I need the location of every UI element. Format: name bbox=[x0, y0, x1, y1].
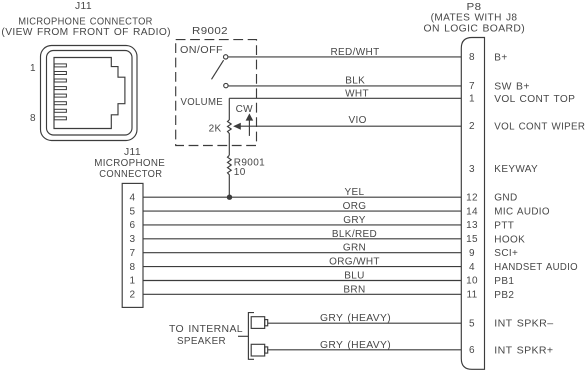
svg-text:KEYWAY: KEYWAY bbox=[494, 164, 538, 175]
svg-text:ORG/WHT: ORG/WHT bbox=[329, 257, 380, 268]
svg-text:WHT: WHT bbox=[345, 88, 369, 99]
wire YEL bbox=[143, 187, 461, 198]
wire RED/WHT bbox=[228, 47, 461, 58]
svg-text:GND: GND bbox=[494, 193, 517, 204]
svg-text:J11: J11 bbox=[75, 1, 92, 12]
svg-text:YEL: YEL bbox=[345, 187, 365, 198]
svg-text:MIC AUDIO: MIC AUDIO bbox=[494, 207, 550, 218]
svg-text:7: 7 bbox=[130, 248, 136, 259]
svg-text:INT SPKR–: INT SPKR– bbox=[494, 319, 553, 330]
wire BLK/RED bbox=[143, 229, 461, 240]
svg-text:RED/WHT: RED/WHT bbox=[330, 47, 379, 58]
wire GRY bbox=[143, 215, 461, 226]
svg-text:PB2: PB2 bbox=[494, 290, 514, 301]
svg-text:1: 1 bbox=[130, 276, 136, 287]
svg-text:INT SPKR+: INT SPKR+ bbox=[494, 345, 553, 356]
svg-text:2: 2 bbox=[469, 121, 475, 132]
node P8 header label bbox=[424, 2, 526, 35]
resistor R9001 10 bbox=[228, 155, 266, 197]
svg-text:GRY (HEAVY): GRY (HEAVY) bbox=[320, 340, 391, 351]
svg-text:GRY: GRY bbox=[343, 215, 366, 226]
svg-text:BLK: BLK bbox=[345, 76, 365, 87]
svg-text:HANDSET AUDIO: HANDSET AUDIO bbox=[494, 262, 578, 273]
control assembly R9002 dashed enclosure bbox=[176, 26, 257, 146]
wire ORG/WHT bbox=[143, 257, 461, 268]
speaker bracket bbox=[169, 313, 254, 360]
node J11 front-view header label bbox=[1, 1, 170, 38]
svg-text:R9002: R9002 bbox=[192, 26, 228, 37]
potentiometer R9002 2K VOLUME bbox=[181, 97, 232, 155]
svg-text:SPEAKER: SPEAKER bbox=[177, 336, 226, 347]
svg-text:4: 4 bbox=[130, 192, 136, 203]
node J11 schematic header label bbox=[94, 147, 165, 180]
CW rotation arrow bbox=[236, 104, 254, 136]
svg-text:1: 1 bbox=[30, 63, 36, 74]
wire BRN bbox=[143, 284, 461, 295]
svg-text:MICROPHONE: MICROPHONE bbox=[94, 158, 165, 169]
svg-text:6: 6 bbox=[130, 220, 136, 231]
svg-text:CONNECTOR: CONNECTOR bbox=[99, 169, 162, 180]
svg-text:2: 2 bbox=[130, 290, 136, 301]
wire WHT bbox=[229, 88, 461, 99]
svg-text:8: 8 bbox=[130, 262, 136, 273]
svg-text:1: 1 bbox=[469, 94, 475, 105]
svg-text:BRN: BRN bbox=[343, 284, 365, 295]
connector J11 front-view jack body bbox=[41, 46, 138, 141]
svg-text:VOLUME: VOLUME bbox=[181, 97, 224, 108]
svg-text:P8: P8 bbox=[467, 2, 482, 13]
svg-text:ORG: ORG bbox=[343, 201, 367, 212]
svg-text:PTT: PTT bbox=[494, 221, 514, 232]
svg-text:(VIEW FROM FRONT OF RADIO): (VIEW FROM FRONT OF RADIO) bbox=[1, 27, 170, 38]
svg-text:13: 13 bbox=[466, 220, 478, 231]
svg-text:TO INTERNAL: TO INTERNAL bbox=[169, 324, 243, 335]
junction R9001 to YEL/GND bbox=[227, 195, 232, 200]
svg-text:10: 10 bbox=[466, 276, 478, 287]
svg-text:VOL CONT WIPER: VOL CONT WIPER bbox=[494, 121, 585, 132]
wire BLK bbox=[228, 76, 461, 87]
svg-text:9: 9 bbox=[469, 248, 475, 259]
svg-text:8: 8 bbox=[469, 52, 475, 63]
svg-text:5: 5 bbox=[130, 206, 136, 217]
svg-text:(MATES WITH J8: (MATES WITH J8 bbox=[431, 13, 518, 24]
svg-text:15: 15 bbox=[466, 234, 478, 245]
svg-text:6: 6 bbox=[469, 345, 475, 356]
svg-text:VOL CONT TOP: VOL CONT TOP bbox=[494, 94, 575, 105]
svg-text:4: 4 bbox=[469, 262, 475, 273]
connector J11 schematic box bbox=[122, 183, 143, 307]
svg-text:SW B+: SW B+ bbox=[494, 81, 530, 92]
svg-text:PB1: PB1 bbox=[494, 276, 514, 287]
svg-text:VIO: VIO bbox=[348, 115, 366, 126]
wire GRN bbox=[143, 243, 461, 254]
svg-text:GRY (HEAVY): GRY (HEAVY) bbox=[320, 313, 391, 324]
connector P8 body bbox=[461, 38, 484, 370]
speaker terminal lug (INT SPKR-) bbox=[251, 317, 268, 329]
svg-text:MICROPHONE CONNECTOR: MICROPHONE CONNECTOR bbox=[18, 17, 153, 28]
svg-text:SCI+: SCI+ bbox=[494, 248, 518, 259]
wire GRY (HEAVY) to INT SPKR- bbox=[268, 313, 462, 324]
connector J11 front-view pin contacts bbox=[54, 64, 66, 120]
svg-text:7: 7 bbox=[469, 81, 475, 92]
svg-text:2K: 2K bbox=[209, 124, 222, 135]
svg-text:11: 11 bbox=[466, 290, 477, 301]
wire GRY (HEAVY) to INT SPKR+ bbox=[268, 340, 462, 351]
wire VIO bbox=[240, 115, 461, 126]
potentiometer wiper arrow bbox=[233, 123, 241, 130]
svg-text:GRN: GRN bbox=[343, 243, 366, 254]
svg-text:12: 12 bbox=[466, 192, 478, 203]
svg-text:3: 3 bbox=[130, 234, 136, 245]
svg-text:3: 3 bbox=[469, 164, 475, 175]
svg-text:8: 8 bbox=[30, 113, 36, 124]
svg-text:HOOK: HOOK bbox=[494, 234, 525, 245]
svg-text:CW: CW bbox=[236, 104, 254, 115]
svg-text:BLK/RED: BLK/RED bbox=[332, 229, 377, 240]
svg-text:J11: J11 bbox=[124, 147, 141, 158]
speaker terminal lug (INT SPKR+) bbox=[251, 344, 268, 356]
svg-text:14: 14 bbox=[466, 206, 478, 217]
svg-text:ON LOGIC BOARD): ON LOGIC BOARD) bbox=[424, 24, 526, 35]
svg-text:10: 10 bbox=[234, 167, 246, 178]
wire ORG bbox=[143, 201, 461, 212]
svg-text:B+: B+ bbox=[494, 52, 507, 63]
svg-text:BLU: BLU bbox=[344, 271, 365, 282]
svg-text:ON/OFF: ON/OFF bbox=[180, 45, 223, 56]
switch S1 ON/OFF bbox=[180, 45, 228, 88]
wire BLU bbox=[143, 271, 461, 282]
svg-text:5: 5 bbox=[469, 318, 475, 329]
